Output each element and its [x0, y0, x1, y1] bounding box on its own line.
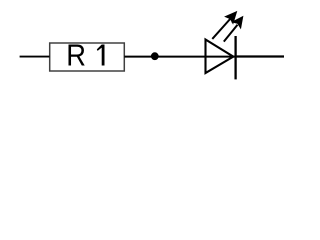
wire — [124, 56, 235, 58]
cathode bar — [234, 36, 236, 79]
junction node — [151, 52, 159, 60]
light arrow 1 — [212, 11, 237, 39]
anode triangle — [206, 40, 234, 74]
resistor body — [50, 43, 125, 71]
resistor R1 — [50, 39, 125, 73]
wire — [236, 55, 284, 57]
light arrow 2 — [224, 16, 244, 42]
wire — [20, 56, 50, 58]
LED D1 — [206, 11, 244, 80]
svg-text:R: R — [66, 39, 86, 73]
